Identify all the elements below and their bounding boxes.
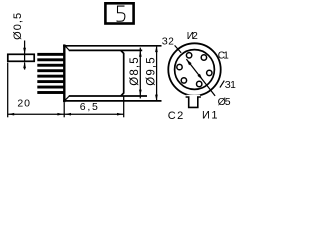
can body (side view): [69, 50, 147, 96]
svg-text:С2: С2: [168, 110, 184, 122]
dimension Ø9,5 (rotated): [156, 47, 158, 101]
dimension 6,5: [64, 96, 124, 117]
svg-text:Ø8,5: Ø8,5: [129, 57, 141, 86]
svg-text:З2: З2: [162, 36, 174, 47]
pin С2: [181, 78, 186, 83]
dimension lines for Ø0,5 with arrows: [24, 41, 26, 70]
svg-text:И2: И2: [187, 31, 198, 42]
pin З2: [177, 64, 182, 69]
dimension 20: [8, 63, 64, 118]
lead detail (single lead, outlined): [8, 54, 34, 61]
pin И1: [197, 81, 202, 86]
pin И2: [186, 53, 191, 58]
pin З1: [207, 70, 212, 75]
svg-text:С1: С1: [218, 50, 229, 61]
pin circles: [177, 53, 212, 87]
flange (header rim, side view): [63, 44, 161, 102]
svg-text:И1: И1: [202, 110, 218, 122]
pin С1: [201, 55, 206, 60]
svg-text:З1: З1: [225, 80, 236, 91]
dimension Ø5 (pin circle diameter, diagonal): [186, 59, 215, 96]
svg-text:6,5: 6,5: [80, 101, 98, 113]
key tab at bottom: [186, 95, 201, 109]
pin bundle (8 short leads): [37, 53, 65, 94]
svg-text:20: 20: [17, 98, 30, 110]
front view: outer circle (flange): [168, 43, 220, 95]
front view: inner circle (can): [175, 50, 215, 90]
dimension line crossing lead: [24, 54, 26, 62]
svg-text:Ø5: Ø5: [218, 96, 231, 108]
figure number box: [105, 3, 133, 23]
dimension Ø8,5 (rotated): [139, 48, 141, 99]
svg-text:Ø9,5: Ø9,5: [145, 57, 157, 86]
svg-text:Ø0,5: Ø0,5: [12, 13, 24, 40]
